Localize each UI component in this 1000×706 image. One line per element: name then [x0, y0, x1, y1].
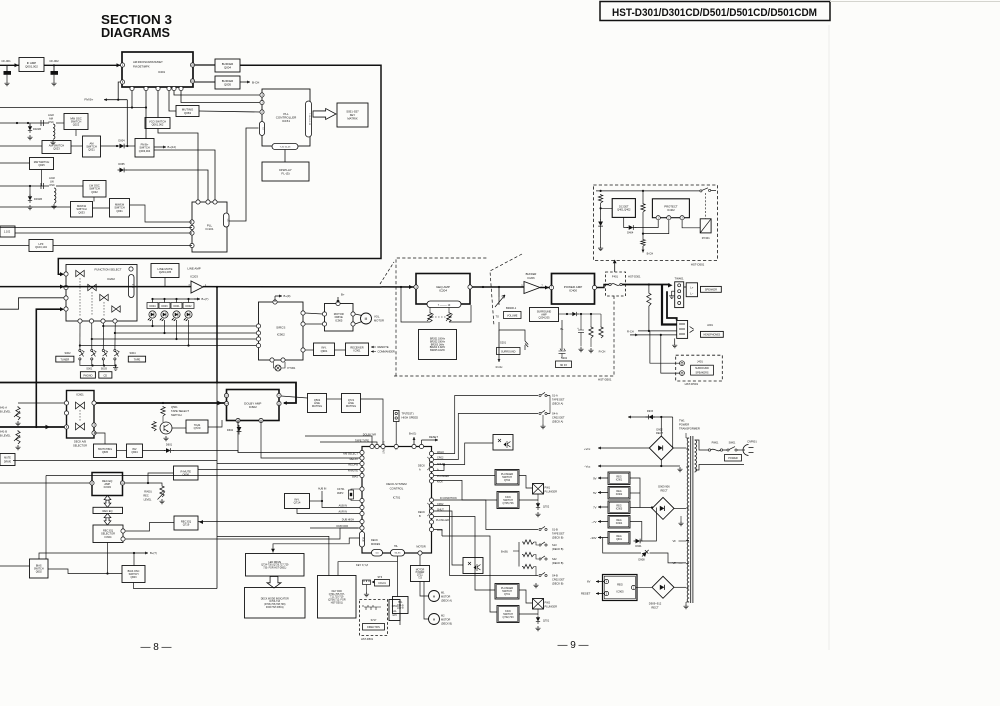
svg-text:RESET: RESET — [429, 435, 438, 439]
svg-text:SPEAKERS: SPEAKERS — [696, 371, 709, 374]
svg-text:MUTING: MUTING — [346, 404, 356, 408]
arrow +Vcc — [598, 447, 649, 450]
protect IC402 pin 1 — [656, 216, 660, 220]
svg-text:S4,S5: S4,S5 — [395, 553, 402, 555]
LED D004 — [148, 311, 156, 321]
dashed diagonal near buffer — [490, 254, 522, 326]
svg-text:7-20·22-25: 7-20·22-25 — [280, 146, 291, 148]
bridge rectifier D902 — [649, 436, 673, 460]
svg-text:B+(B): B+(B) — [501, 550, 508, 554]
label 6V — [587, 580, 591, 584]
wire drive line a — [13, 460, 217, 462]
svg-text:730: FOR HST-D501): 730: FOR HST-D501) — [263, 566, 286, 569]
wire PLL IC101 left pin3 line — [15, 232, 192, 234]
receiver IC901 — [346, 343, 369, 356]
svg-text:HST-D501: HST-D501 — [598, 378, 612, 382]
pot arrow A — [14, 411, 20, 417]
label SHUT B — [437, 509, 444, 512]
svg-text:IC151: IC151 — [282, 119, 290, 123]
svg-text:D004: D004 — [118, 138, 125, 142]
svg-text:RECT: RECT — [656, 431, 663, 435]
svg-text:AM: AM — [49, 117, 53, 121]
junction rail pin2 — [145, 106, 147, 108]
wire Q022 down to Q021 — [75, 130, 77, 137]
switch S42 symbol — [539, 556, 547, 560]
IC202 bottom pin c — [101, 319, 105, 323]
wire SIRCS top pin up — [274, 296, 276, 302]
junction GEQ input — [400, 286, 402, 288]
wire Q025 to L032 area — [41, 170, 43, 187]
IC001 pin 1 — [120, 63, 124, 67]
IC601 right pin a — [92, 401, 96, 405]
ground ST6 — [364, 592, 369, 597]
regulator Q901 — [608, 532, 630, 545]
wire pot A to IC601 — [18, 402, 67, 404]
svg-text:BR205 10kHz: BR205 10kHz — [430, 349, 446, 352]
switch S4-A symbol — [539, 410, 550, 414]
svg-text:S1-A: S1-A — [552, 394, 558, 398]
IC701 right pin deckA 2 — [429, 457, 433, 461]
wire IC604 to rec eq Q719 — [126, 523, 175, 532]
svg-text:B+(T): B+(T) — [150, 551, 157, 555]
svg-text:DUB NOR: DUB NOR — [336, 525, 348, 528]
dolby pin 11 — [277, 401, 281, 405]
resistor Q501 base — [161, 406, 165, 416]
label HST-D501 surround jack — [685, 382, 699, 386]
svg-text:IC402: IC402 — [667, 208, 675, 212]
wire LED1 to SIRCS a — [103, 325, 256, 327]
IC202 left pin 4 — [64, 307, 68, 311]
wire KICKB2 — [442, 536, 497, 612]
dashed enclosure surround (HST-D501) — [394, 294, 614, 376]
rec eq Q719 — [174, 516, 198, 530]
svg-text:D908: D908 — [638, 558, 645, 562]
svg-text:MUTING: MUTING — [312, 404, 322, 408]
arrowhead thick deck line — [46, 425, 51, 429]
wire bias osc down and right — [134, 583, 218, 589]
ground S4-B — [533, 583, 538, 588]
wire MW/LW line — [0, 206, 71, 208]
motor M1 — [429, 591, 453, 603]
IC701 left pin 3 — [360, 461, 364, 465]
svg-text:TRANSFORMER: TRANSFORMER — [679, 427, 700, 431]
svg-text:DECK: DECK — [418, 465, 425, 468]
relay contact switch — [700, 188, 716, 192]
IF amp Q001,002 — [19, 58, 44, 72]
surround speakers jack J401 dashed — [676, 355, 723, 381]
transformer tap a — [686, 437, 689, 439]
SIRCS left pin d — [256, 343, 260, 347]
svg-text:Q702,703: Q702,703 — [503, 616, 515, 619]
power switch SW01 — [723, 442, 737, 452]
wire Q033 to Q031 — [93, 207, 110, 209]
label KEY X,Y,Z — [356, 563, 368, 567]
wire protect feed — [614, 262, 616, 273]
wire IC001 pin to FM B+ switch — [145, 91, 147, 139]
label RESET out — [581, 592, 591, 596]
muting Q063 — [176, 106, 199, 117]
arrow D915 line — [628, 416, 673, 419]
wire test drop — [395, 422, 397, 447]
svg-text:HST-D501: HST-D501 — [685, 382, 699, 386]
IC001 bottom pin 3 — [144, 86, 148, 90]
svg-text:VF: VF — [673, 561, 677, 565]
ground pot A — [15, 421, 20, 426]
svg-text:5V: 5V — [593, 491, 597, 495]
thick drop from x217 to lower bus — [216, 287, 218, 383]
label SHLT A — [437, 463, 444, 466]
diode D602 — [227, 425, 242, 435]
dashed enclosure GEQ (HST-D501) — [396, 258, 488, 376]
svg-text:S1-B: S1-B — [552, 528, 558, 532]
svg-text:BIAS: BIAS — [352, 475, 358, 479]
wire muting to PLL controller pin2 — [199, 111, 260, 112]
MW switch Q025 — [30, 158, 54, 170]
inverter Q901 — [314, 343, 335, 356]
label S13 (DECK B) — [552, 543, 564, 551]
wire IC604 down — [108, 543, 123, 574]
transformer tap d — [686, 507, 689, 509]
svg-text:MOTOR: MOTOR — [374, 319, 384, 323]
speaker terminal TW401 — [675, 282, 684, 308]
label D903-906 RECT — [658, 485, 670, 493]
junction on IF line — [53, 64, 55, 66]
pot RV641-A — [16, 406, 20, 420]
wire WALK to S1-A — [434, 396, 539, 454]
PLL IC101 left pin 2 — [190, 225, 194, 229]
wire AM switch Q023 line — [0, 145, 42, 147]
resistor protect center top — [641, 203, 645, 212]
double arrow IC603 to REC EQ — [104, 496, 111, 508]
svg-text:Q204,205: Q204,205 — [539, 316, 551, 319]
svg-text:PHONO: PHONO — [83, 374, 92, 377]
wire motor drive to motor 1 — [355, 314, 362, 316]
label B+(7) — [202, 297, 209, 301]
IC603 left pin — [90, 481, 94, 485]
svg-text:(DECK A): (DECK A) — [441, 600, 452, 603]
wire Q021 to D004 — [101, 145, 118, 147]
svg-text:Q722,: Q722, — [417, 575, 424, 577]
svg-text:B-CH: B-CH — [647, 251, 654, 255]
wire B+ to bus — [513, 550, 519, 552]
transformer primary winding — [695, 440, 697, 472]
wire reset up — [421, 440, 423, 446]
svg-text:LINE AMP: LINE AMP — [187, 267, 200, 271]
volume pot BR200-1 — [495, 287, 521, 319]
dashed relay link — [705, 193, 707, 219]
svg-text:R-CH: R-CH — [496, 365, 503, 369]
coil L022 winding — [53, 124, 55, 139]
wire deckB resistor bus — [518, 542, 520, 567]
motor drive left pin a — [322, 312, 326, 316]
ground under bridge D902 — [677, 467, 682, 472]
wire Q032 down to Q033 — [93, 197, 95, 202]
svg-text:KEY X,Y,Z: KEY X,Y,Z — [356, 563, 368, 567]
power amp IC400 — [552, 274, 595, 305]
key pad Q701-719 — [318, 576, 357, 619]
IC601 right pin b — [92, 423, 96, 427]
PLL IC101 left pin 4 — [190, 243, 194, 247]
rec eq link box — [93, 507, 123, 513]
switch S13 symbol — [539, 542, 547, 546]
label RESET — [429, 435, 438, 439]
svg-text:(DECK B): (DECK B) — [441, 623, 452, 626]
relay RY401 — [700, 219, 711, 240]
line mute Q204,205 — [151, 264, 179, 278]
junction D915 bridge top — [660, 416, 662, 418]
connector ST6 — [363, 580, 375, 592]
IC701 right pin deckB 3 — [429, 509, 433, 513]
IC202 left pin 1 — [64, 272, 68, 276]
svg-text:IC603: IC603 — [104, 485, 112, 489]
wire inv to D601 — [143, 450, 166, 452]
SIRCS bottom pin b — [281, 358, 285, 362]
junction at D004 — [116, 145, 118, 147]
svg-text:CF-002: CF-002 — [49, 59, 59, 63]
svg-text:TW401: TW401 — [674, 276, 683, 280]
S717 direction dashed box — [360, 600, 388, 642]
dashed link to function select — [380, 262, 394, 284]
junction pin4 feed at deck bus — [35, 426, 37, 428]
svg-text:BR200-1: BR200-1 — [506, 306, 517, 310]
label B+(T) — [150, 551, 157, 555]
wire IC905 to bridge3 — [636, 586, 652, 588]
svg-text:F401: F401 — [612, 275, 619, 279]
junction protect rail mid — [642, 190, 644, 192]
svg-text:G11-: G11- — [392, 611, 397, 613]
SIRCS IC902 — [259, 302, 304, 360]
plunger switch Q701b — [495, 584, 519, 600]
dolby pin 5 — [259, 418, 263, 422]
svg-text:Q602: Q602 — [36, 570, 43, 573]
IC202 top right pin — [129, 267, 133, 271]
buffer Q005 — [215, 76, 240, 89]
page number 8 — [140, 642, 171, 653]
svg-text:B-CH: B-CH — [252, 80, 259, 84]
label 9V — [593, 476, 597, 480]
IC001 bottom pin 6 — [172, 86, 176, 90]
arrowhead into IF amp — [15, 63, 19, 67]
AM switch Q021 — [83, 136, 101, 157]
transformer tap b — [686, 448, 689, 450]
arrow B-CH down — [642, 246, 645, 253]
arrow LED rail B+(7) — [194, 298, 200, 301]
transformer tap f — [686, 563, 689, 565]
switch S003 labels — [99, 367, 112, 379]
IC701 right pin deckB 5 — [429, 520, 433, 524]
IC603 right pin — [120, 481, 124, 485]
SIRCS bottom pin a — [270, 358, 274, 362]
svg-text:−7V: −7V — [591, 520, 596, 524]
wire SIRCS pin b to crystal — [281, 362, 285, 368]
label CR02 A — [437, 457, 444, 460]
arrowhead into dolby pin11 — [283, 401, 287, 405]
label S1-B TAPE DET (DECK B) — [552, 528, 565, 540]
IC701 left pin 4 — [360, 467, 364, 471]
label A/B SELECT — [343, 452, 358, 456]
svg-text:Q063: Q063 — [184, 111, 191, 115]
svg-text:Q021: Q021 — [88, 148, 95, 152]
wire SHLT to opto1 — [434, 443, 494, 465]
wire bridge top up — [660, 417, 662, 436]
IC601 left pin b — [64, 411, 68, 415]
GEQ strip to trimmer b — [448, 308, 450, 313]
label WALK — [437, 451, 444, 454]
selector switch ground rail — [81, 365, 116, 367]
wire IC603 left line — [0, 482, 90, 484]
PLL IC101 left pin 1 — [190, 220, 194, 224]
svg-text:Q701: Q701 — [504, 593, 511, 596]
junction led1 — [151, 325, 153, 327]
deck system control IC701 — [362, 447, 432, 554]
IC001 bottom pin 4 — [156, 86, 160, 90]
svg-text:B+: B+ — [341, 293, 345, 297]
IC701 right pin deckA 3 — [429, 462, 433, 466]
LED label box D004 — [147, 303, 158, 309]
svg-text:(DECK A): (DECK A) — [552, 402, 563, 406]
TP test connector — [394, 411, 400, 422]
svg-text:M2: M2 — [441, 615, 445, 618]
LPF Q103,104 — [29, 240, 53, 252]
junction led4 — [187, 344, 189, 346]
regulator IC904 — [608, 516, 630, 529]
svg-text:D031B: D031B — [34, 197, 42, 201]
arrow R-CH headphones — [630, 333, 638, 336]
pot RV601 element — [160, 485, 164, 497]
svg-text:HST-D501): HST-D501) — [331, 601, 343, 604]
arrowhead into IC202 pin1 — [60, 272, 64, 276]
junction FM B+ at D004 line — [126, 145, 128, 147]
PLL IC101 top pin a — [196, 200, 200, 204]
label 5V — [593, 491, 597, 495]
wire Q501 links — [162, 416, 164, 422]
arrow RESET out — [596, 592, 604, 595]
svg-text:ST6: ST6 — [378, 576, 383, 579]
wire D403 down — [600, 229, 602, 246]
ground RV601 — [159, 499, 164, 504]
wire surround drop b — [661, 335, 680, 373]
selector switch contact 3 — [102, 349, 108, 360]
wire bridge3 to transformer — [674, 586, 686, 588]
svg-text:S002: S002 — [64, 351, 71, 355]
svg-text:REC/PB: REC/PB — [348, 463, 358, 467]
svg-text:A/B SELECT: A/B SELECT — [343, 452, 358, 456]
GEQ trimmer a — [428, 312, 432, 322]
junction aub — [321, 500, 323, 502]
label DUB NOR — [336, 525, 348, 528]
diode D601 — [164, 443, 174, 453]
switch in IC202 c — [100, 294, 108, 300]
svg-text:IC905: IC905 — [616, 590, 624, 594]
svg-text:MOTOR: MOTOR — [441, 619, 450, 622]
label TP(TEST) HIGH SPEED — [402, 412, 419, 420]
svg-text:— 8 —: — 8 — — [140, 642, 171, 653]
arrow 6V out — [596, 580, 604, 583]
IC601 switch b — [76, 423, 85, 430]
svg-text:Q704: Q704 — [504, 479, 511, 482]
wire IC202 pin to switch 2 — [91, 323, 93, 349]
svg-text:R-CH: R-CH — [627, 329, 634, 333]
label S4-B CR02 DET (DECK B) — [552, 574, 565, 586]
PLL controller IC151 — [262, 89, 310, 146]
diode D908 — [638, 548, 650, 561]
svg-text:M: M — [365, 317, 368, 321]
junction surround b — [580, 313, 582, 315]
wire SHUT to opto2 — [434, 511, 464, 565]
svg-text:SURROUND: SURROUND — [501, 351, 516, 354]
wire FM B+ switch to PLL IC101 top — [154, 150, 215, 202]
drop from x217 to rec section — [216, 383, 218, 589]
ground TW401 — [669, 294, 674, 299]
svg-text:CF701: CF701 — [337, 488, 345, 491]
wire VCO switch to PLL IC101 top — [158, 129, 198, 203]
svg-text:HST-D501: HST-D501 — [691, 263, 705, 267]
wire IC202 pin to switch 3 — [102, 323, 104, 349]
svg-text:7 ——— 10: 7 ——— 10 — [438, 304, 451, 307]
crystal X'T301 — [275, 365, 296, 371]
wire res c link — [534, 567, 536, 576]
svg-text:FM B+: FM B+ — [84, 98, 93, 102]
wire surround amp down — [561, 320, 563, 350]
arrowhead into IC202 pin2 — [60, 285, 64, 289]
svg-text:DECK-SYSTEM: DECK-SYSTEM — [386, 482, 407, 486]
header model box HST-D301/D301CD/D501/D501CD/D501CDM — [600, 2, 830, 21]
svg-text:DUB HIGH: DUB HIGH — [342, 519, 354, 522]
wire gnd bridge2 — [680, 516, 682, 521]
wire tuner rail y107 — [0, 107, 146, 109]
svg-text:SW01: SW01 — [729, 442, 736, 445]
svg-text:AUB IN: AUB IN — [339, 505, 348, 508]
junction GEQ out a — [482, 286, 484, 288]
IC701 top pin a — [370, 444, 374, 448]
power amp left pin — [549, 285, 553, 289]
svg-text:IC001: IC001 — [158, 70, 166, 74]
label AUB IN top — [318, 488, 327, 491]
svg-text:BUFFER: BUFFER — [526, 272, 537, 276]
wire pin3 to relay — [682, 220, 700, 228]
MW/LW switch Q031 — [110, 199, 130, 218]
wire relay long — [261, 421, 360, 459]
svg-text:J401: J401 — [697, 360, 703, 364]
LED label box D001 — [171, 303, 182, 309]
IC701 left pin 2 — [360, 456, 364, 460]
label B+(G) — [409, 432, 416, 436]
rec eq selector IC604 — [93, 525, 123, 543]
svg-text:+Vcc: +Vcc — [584, 447, 591, 451]
svg-text:MOTOR: MOTOR — [441, 596, 450, 599]
svg-text:IC604: IC604 — [105, 535, 112, 539]
wire L032 to LW OSC switch — [56, 185, 83, 187]
svg-text:S42: S42 — [552, 557, 557, 561]
IC701 top pin d — [394, 444, 398, 448]
regulator IC902 — [608, 487, 630, 500]
label DECK A/B SELECTOR — [73, 440, 87, 448]
wire volume to S201 — [499, 322, 525, 336]
svg-text:DRIVE: DRIVE — [4, 461, 12, 464]
wire LED3 drop — [176, 320, 178, 339]
junction A-SHUT — [443, 463, 445, 465]
svg-text:Q031: Q031 — [116, 209, 123, 213]
svg-text:Q604: Q604 — [131, 450, 138, 454]
wire PW2 down — [537, 609, 539, 615]
svg-text:IC905: IC905 — [335, 318, 343, 322]
svg-text:TUNER: TUNER — [60, 358, 69, 362]
svg-text:REC EQ: REC EQ — [103, 509, 113, 513]
protect IC402 pin 2 — [667, 216, 671, 220]
label B+(9) — [284, 294, 291, 298]
wire LED3 to SIRCS c — [92, 338, 256, 340]
wire IC001 pin to PLL controller pin4 — [174, 91, 260, 95]
